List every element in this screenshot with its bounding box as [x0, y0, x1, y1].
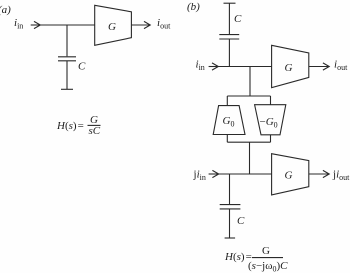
svg-text:iout: iout [334, 59, 348, 73]
svg-text:G: G [285, 62, 293, 74]
top terminal bar (b) [224, 2, 236, 4]
svg-text:iin: iin [196, 59, 205, 73]
wire capacitor C3 to terminal [229, 209, 231, 238]
terminal bar (a) [61, 88, 73, 90]
svg-text:G: G [262, 245, 270, 257]
svg-text:iin: iin [14, 17, 23, 31]
svg-text:jiin: jiin [193, 169, 206, 183]
terminal bar (b bottom) [225, 237, 236, 239]
input arrow ji_in [209, 170, 219, 177]
capacitor C2 [219, 35, 239, 39]
transconductor G bottom (b) [272, 154, 309, 195]
svg-text:jiout: jiout [332, 169, 350, 183]
output arrow i_out (b) [323, 63, 329, 70]
capacitor C1 [58, 57, 76, 61]
svg-text:(s−jω0)C: (s−jω0)C [248, 260, 288, 273]
svg-text:H(s)=: H(s)= [56, 120, 84, 132]
output wire ji_out [309, 173, 329, 175]
capacitor C3 [220, 205, 241, 209]
wire i_in node to gyrator top bus [249, 67, 251, 97]
stub bus to G0 top [226, 96, 228, 106]
stub -G0 bottom to bottom bus [270, 135, 272, 142]
gyrator top bus [227, 95, 270, 97]
transconductor -G0 [255, 105, 286, 135]
formula (a): H(s)=G/sC [56, 114, 101, 137]
svg-text:G: G [108, 21, 116, 33]
output wire (a) [131, 24, 150, 26]
output arrow (a) [144, 21, 150, 28]
svg-text:(b): (b) [187, 1, 200, 13]
stub G0 bottom to bottom bus [226, 135, 228, 143]
svg-text:(a): (a) [0, 4, 11, 16]
formula (b): H(s)=G/((s-j w0)C) [224, 245, 288, 273]
stub bus to -G0 top [270, 96, 272, 105]
wire terminal to capacitor C2 [228, 3, 230, 34]
transconductor G top (b) [272, 45, 309, 87]
wire capacitor C1 to terminal [66, 61, 68, 89]
svg-text:C: C [78, 61, 86, 73]
input arrow (a) [31, 21, 41, 28]
wire bottom bus to ji_in line [249, 142, 251, 174]
output arrow ji_out [323, 170, 329, 177]
wire node to capacitor C1 [66, 25, 68, 56]
svg-text:iout: iout [157, 17, 171, 31]
output wire i_out (b) [309, 66, 329, 68]
gyrator bottom bus [227, 141, 270, 143]
wire ji_in line [218, 173, 271, 175]
svg-text:C: C [234, 13, 242, 25]
wire i_in line (b) [218, 66, 272, 68]
transconductor G0 [213, 106, 245, 135]
wire ji_in node to capacitor C3 [229, 174, 231, 204]
svg-text:C: C [237, 215, 245, 227]
input arrow (b) [209, 63, 219, 70]
transconductor G (a) [95, 5, 132, 45]
svg-text:sC: sC [89, 125, 101, 137]
wire capacitor C2 to i_in node [228, 39, 230, 66]
wire input node to amp (a) [40, 24, 95, 26]
svg-text:G: G [285, 170, 293, 182]
